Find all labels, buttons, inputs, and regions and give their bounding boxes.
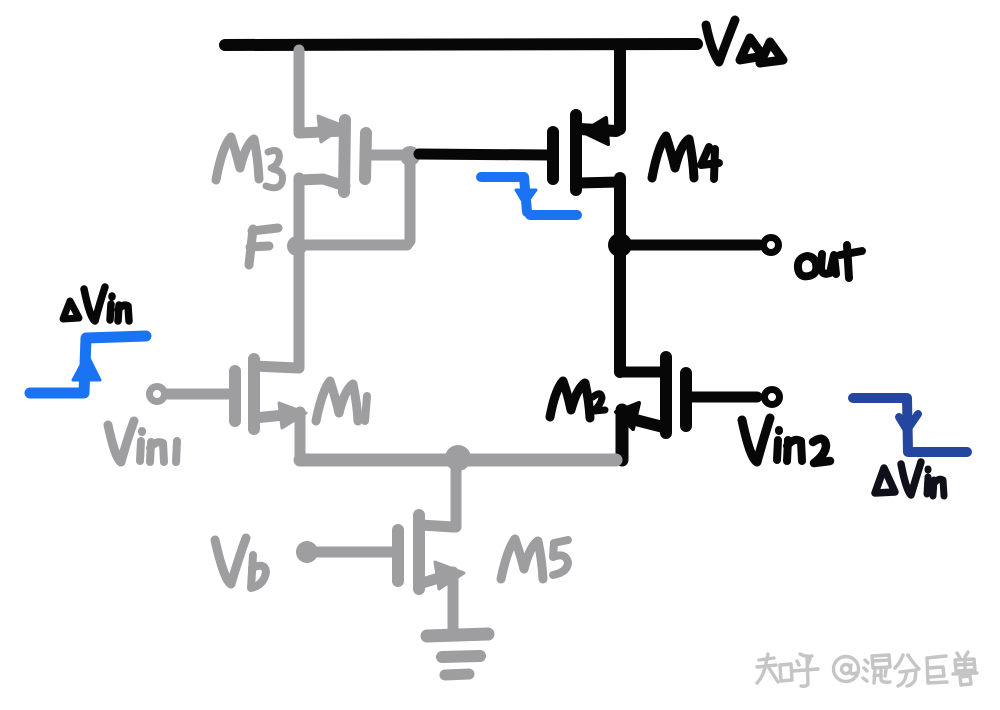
label Vin2 [742, 418, 830, 463]
wire M3 drain to F to M1 drain [294, 178, 305, 368]
transistor M2 [616, 357, 686, 433]
terminal out [764, 238, 779, 253]
wire VDD to M4 source [579, 50, 620, 131]
transistor M4 [553, 115, 619, 190]
wire M5 source to ground [448, 572, 459, 631]
label M2 [550, 381, 605, 418]
label Vb [215, 538, 266, 588]
blue step at M4 gate [481, 177, 577, 215]
label F [249, 228, 278, 265]
VDD rail [225, 44, 697, 45]
wire gate feedback to F [302, 158, 410, 245]
watermark zhihu [757, 652, 977, 686]
wire VDD to M3 source [299, 50, 344, 133]
label M3 [216, 137, 283, 188]
wire tail to M5 drain [421, 458, 456, 527]
blue step at Vin1 [30, 336, 146, 393]
tail rail wire [300, 454, 616, 467]
label VDD [706, 20, 783, 63]
label M5 [501, 539, 568, 579]
terminal Vin2 [765, 390, 780, 405]
terminal Vb [296, 541, 318, 563]
wire M1 source down to tail [295, 412, 306, 458]
label dVin right [875, 462, 944, 496]
wire out node to M2 drain [614, 245, 626, 372]
M3 gate lead [367, 150, 408, 161]
label Vin1 [108, 421, 177, 462]
M1 gate lead [168, 389, 228, 400]
node out junction [608, 233, 632, 257]
label M1 [316, 381, 367, 421]
label M4 [652, 136, 719, 179]
node tail junction [445, 445, 471, 471]
M2 gate lead [690, 392, 757, 403]
label dVin left [63, 287, 129, 321]
wire out [620, 240, 759, 251]
label out [798, 245, 862, 278]
terminal Vin1 [150, 387, 165, 402]
wire M3 gate to M4 gate [419, 154, 549, 155]
wire M2 source down to tail [616, 410, 629, 460]
ground [427, 634, 488, 675]
dark blue step at Vin2 [853, 398, 967, 452]
M5 gate lead [310, 547, 392, 558]
transistor M1 [235, 359, 306, 429]
wire M4 drain to out node [614, 178, 626, 245]
transistor M3 [299, 116, 366, 192]
node F [287, 236, 307, 256]
transistor M5 [398, 515, 464, 589]
node M3 gate junction [400, 146, 420, 166]
